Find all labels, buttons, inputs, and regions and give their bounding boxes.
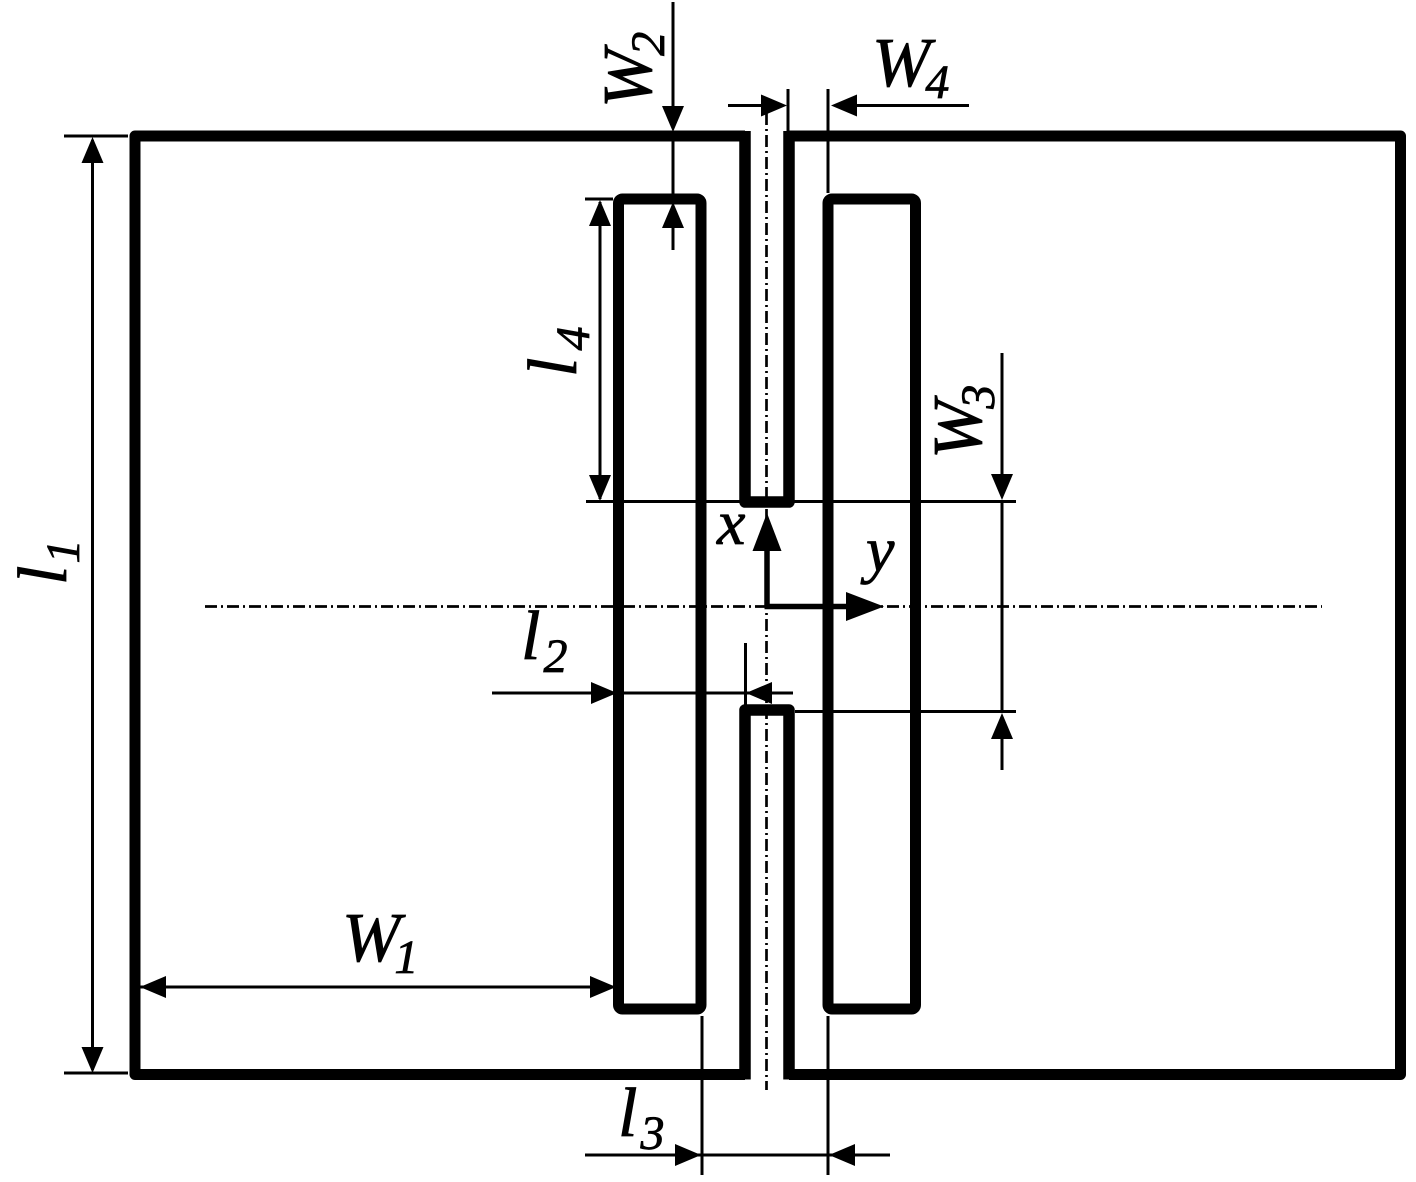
dimension W1 right arrowhead [590, 976, 616, 998]
dimension W1 left arrowhead [140, 976, 166, 998]
dimension W3 connecting line [1001, 501, 1004, 713]
dimension W1 line [140, 986, 616, 989]
patch outline left part [135, 136, 745, 1075]
dimension l1 bottom arrowhead [82, 1047, 104, 1073]
dimension W4 right line [855, 104, 969, 107]
right slot [828, 199, 916, 1009]
svg-text:x: x [716, 487, 745, 558]
dimension W4 left arrowhead [761, 95, 787, 117]
dimension W3 lower arrowhead [991, 713, 1013, 739]
dimension W4 right arrowhead [831, 95, 857, 117]
dimension l4 top arrowhead [589, 200, 611, 226]
dimension l1 line [91, 140, 94, 1070]
dimension l3 right extension line [827, 1016, 830, 1175]
top slit [745, 131, 789, 502]
svg-text:y: y [860, 514, 895, 585]
dimension l2 extension line [744, 643, 747, 705]
dimension W2 lower line [672, 226, 675, 250]
x axis line [764, 549, 770, 607]
shared extension line at slit cap level [586, 500, 1016, 503]
dimension l2 right-pointing arrowhead [591, 682, 617, 704]
x axis arrowhead [753, 513, 782, 551]
patch outline right part [789, 136, 1401, 1075]
dimension W4 right extension line [827, 89, 830, 193]
dimension W4 left extension line [787, 89, 790, 133]
dimension W2 upper arrowhead [662, 106, 684, 132]
dimension W3 upper line [1001, 353, 1004, 478]
dimension l4 top extension line [585, 198, 613, 201]
dimension W4 left line [728, 104, 762, 107]
dimension W3 lower line [1001, 737, 1004, 770]
vertical centerline [765, 113, 768, 1090]
left slot [619, 199, 702, 1009]
bottom slit [745, 710, 789, 1080]
dimension l3 left extension line [701, 1016, 704, 1175]
dimension W3 upper arrowhead [991, 474, 1013, 500]
dimension W2 middle extension [672, 141, 675, 199]
dimension l4 line [599, 202, 602, 499]
y axis line [765, 604, 849, 610]
dimension l1 top extension line [64, 135, 128, 138]
dimension l3 left-pointing arrowhead [829, 1144, 855, 1166]
y axis arrowhead [846, 592, 884, 621]
dimension l3 right-pointing arrowhead [675, 1144, 701, 1166]
dimension W2 upper line [672, 2, 675, 128]
dimension l2 left-pointing arrowhead [746, 682, 772, 704]
dimension W3 lower extension line [795, 710, 1016, 713]
dimension l4 bottom arrowhead [589, 475, 611, 501]
dimension l3 line [585, 1154, 890, 1157]
dimension W2 lower arrowhead [662, 202, 684, 228]
dimension l1 top arrowhead [82, 137, 104, 163]
dimension l2 line [492, 692, 793, 695]
horizontal centerline [205, 605, 1322, 608]
dimension l1 bottom extension line [64, 1072, 128, 1075]
